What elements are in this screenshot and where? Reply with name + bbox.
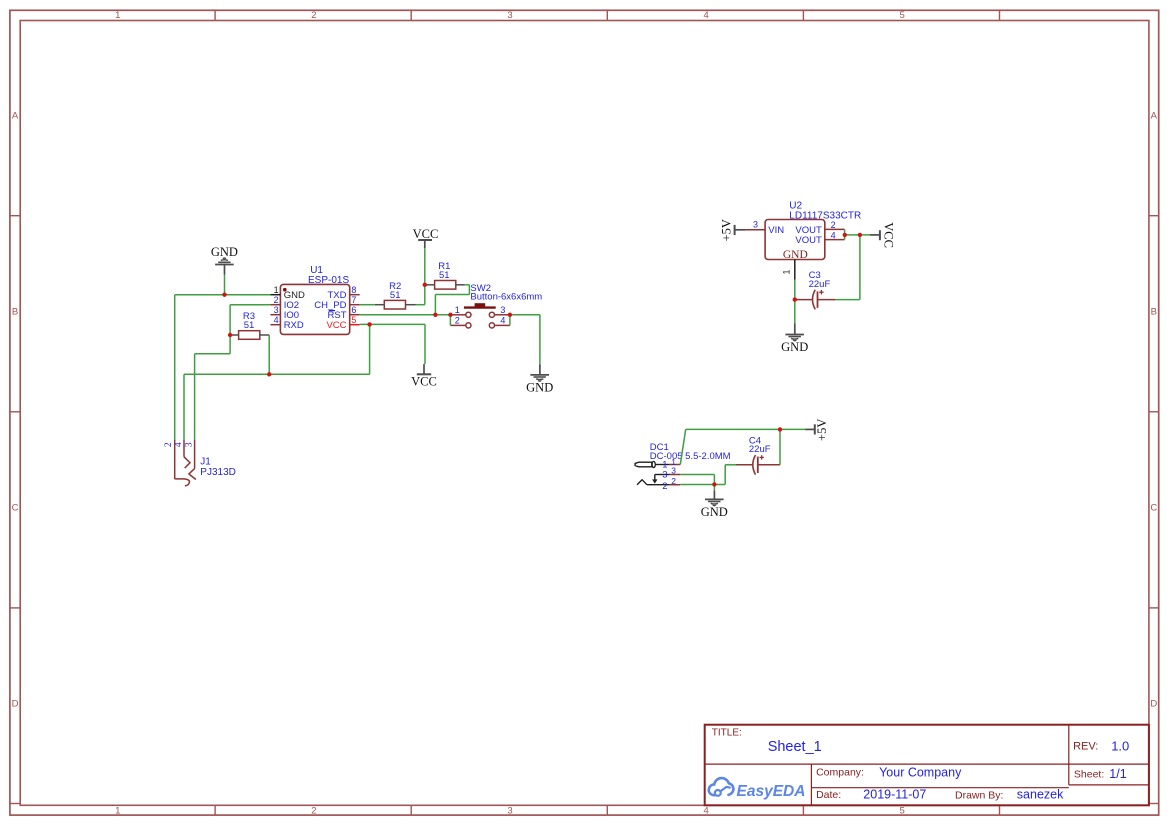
resistor R1 [435, 261, 456, 289]
wire DC1 pin2 [680, 484, 714, 486]
svg-text:7: 7 [351, 295, 356, 305]
wire GND flag stub [224, 265, 226, 275]
junction DC1 ground [712, 482, 716, 486]
svg-text:EasyEDA: EasyEDA [737, 783, 806, 800]
wire IO2 jog horizontal [195, 353, 231, 355]
junction U2 output [843, 233, 847, 237]
wire VCC flag stub U2 [870, 234, 880, 236]
SW2 pin 4 [495, 316, 510, 326]
R3 right lead [260, 334, 269, 336]
DC1 pin 1 [656, 457, 681, 471]
svg-text:51: 51 [439, 270, 450, 281]
R3 left lead [230, 334, 239, 336]
svg-text:22uF: 22uF [809, 279, 831, 290]
resistor R3 [239, 311, 260, 339]
svg-text:4: 4 [831, 230, 836, 240]
wire VCC pin5 down [369, 324, 371, 374]
svg-text:GND: GND [211, 245, 238, 259]
R2 right lead [406, 304, 416, 306]
svg-text:4: 4 [500, 316, 505, 326]
svg-text:6: 6 [351, 305, 356, 315]
svg-text:4: 4 [703, 806, 708, 817]
svg-text:22uF: 22uF [749, 444, 771, 455]
junction SW2 pin3 [508, 313, 512, 317]
svg-text:4: 4 [703, 10, 708, 21]
svg-text:PJ313D: PJ313D [200, 467, 236, 478]
capacitor C4 [749, 435, 771, 474]
U2 pin 1 GND [782, 249, 808, 279]
wire DC1 pin3 [680, 475, 714, 485]
svg-text:VIN: VIN [768, 225, 784, 236]
svg-text:1/1: 1/1 [1109, 767, 1126, 781]
DC1 pin 3 with switch arrow [652, 466, 680, 484]
svg-text:Your Company: Your Company [879, 765, 962, 779]
svg-text:3: 3 [274, 305, 279, 315]
svg-text:GND: GND [781, 340, 808, 354]
svg-text:1.0: 1.0 [1111, 739, 1129, 754]
SW2 pin 3 [495, 305, 510, 315]
svg-text:Drawn By:: Drawn By: [955, 790, 1003, 802]
wire VCC pin5 right [360, 323, 425, 325]
svg-text:8: 8 [351, 285, 356, 295]
net flag VCC top [413, 227, 439, 241]
SW2 pin 1 [450, 305, 465, 315]
svg-text:TITLE:: TITLE: [712, 728, 742, 739]
svg-text:51: 51 [390, 290, 401, 301]
wire +5V flag stub [805, 428, 815, 430]
svg-text:REV:: REV: [1073, 741, 1098, 753]
net flag +5V right of DC1 [815, 419, 829, 441]
svg-text:D: D [1150, 699, 1157, 710]
svg-text:Date:: Date: [816, 789, 841, 801]
svg-text:3: 3 [507, 806, 512, 817]
J1 pin 3 (tip contact) [184, 440, 196, 480]
svg-text:B: B [12, 306, 18, 317]
wire to C4 [714, 465, 736, 485]
svg-text:Company:: Company: [816, 766, 864, 778]
wire VCC pin5 to bottom flag [424, 324, 426, 364]
svg-text:3: 3 [662, 470, 667, 481]
svg-text:VCC: VCC [326, 320, 346, 331]
DC1 barrel plug symbol [635, 461, 655, 467]
net flag GND below U2 [781, 335, 808, 355]
svg-text:2019-11-07: 2019-11-07 [863, 788, 926, 802]
R1 left lead [425, 284, 435, 286]
switch SW2 contacts [466, 312, 495, 328]
svg-text:VCC: VCC [882, 222, 896, 248]
C4 left lead [736, 464, 752, 466]
svg-text:2: 2 [671, 476, 676, 486]
wire +5V to VIN [735, 229, 745, 231]
wire U2 GND down [794, 280, 796, 324]
U2 pin 4 VOUT [795, 230, 844, 246]
U1 pin 3 IO0 [270, 305, 299, 321]
EasyEDA logo [709, 778, 806, 800]
svg-text:2: 2 [274, 295, 279, 305]
svg-text:5: 5 [900, 10, 905, 21]
svg-text:3: 3 [507, 10, 512, 21]
wire C3 branch down [835, 235, 860, 300]
junction SW2 pin1 [448, 313, 452, 317]
wire R2 to VCC line [416, 304, 425, 306]
svg-text:A: A [12, 110, 19, 121]
U1 pin 6 RST [328, 305, 360, 321]
junction R3 left [228, 333, 232, 337]
junction R1 left [423, 283, 427, 287]
svg-text:GND: GND [783, 249, 808, 261]
svg-text:3: 3 [500, 305, 505, 315]
junction C3 left [793, 297, 797, 301]
SW2 pin 2 [450, 316, 465, 326]
svg-text:2: 2 [311, 806, 316, 817]
J1 pin 4 (ring contact) [174, 440, 190, 468]
C3 right lead [818, 299, 836, 301]
C3 left lead [795, 299, 812, 301]
junction GND flag [222, 293, 226, 297]
net flag +5V left of U2 [720, 219, 735, 241]
capacitor C3 [809, 270, 831, 309]
wire IO2 horizontal [230, 304, 270, 306]
wire SW2 right bridge [509, 315, 511, 326]
title block frame [705, 725, 1149, 806]
op-amp U1 ESP-01S body [280, 265, 349, 335]
frame row letters right [1150, 110, 1157, 709]
svg-text:Sheet_1: Sheet_1 [768, 739, 822, 755]
svg-text:B: B [1151, 306, 1157, 317]
wire VCC vertical to J1 pin4 [183, 374, 185, 440]
wire GND flag stub SW2 [539, 364, 541, 375]
wire VCC top stub [424, 240, 426, 248]
svg-text:5: 5 [351, 315, 356, 325]
svg-text:Button-6x6x6mm: Button-6x6x6mm [470, 292, 542, 303]
frame row letters left [12, 110, 19, 709]
svg-text:2: 2 [831, 220, 836, 230]
wire GND net pin1 [175, 294, 271, 296]
wire R3 right to VCC line [268, 335, 270, 374]
net flag GND below DC1 [701, 499, 728, 519]
wire IO2 vertical [229, 305, 231, 354]
U2 pin 2 VOUT [795, 220, 844, 236]
wire U2 output to VCC [845, 234, 870, 236]
U1 pin 5 VCC [326, 315, 359, 331]
svg-text:LD1117S33CTR: LD1117S33CTR [789, 210, 861, 221]
switch SW2 button cap [464, 303, 496, 307]
svg-text:4: 4 [174, 442, 184, 447]
svg-text:5: 5 [900, 806, 905, 817]
svg-text:GND: GND [701, 505, 728, 519]
net flag GND right of SW2 [526, 375, 553, 395]
junction +5V C4 [778, 427, 782, 431]
svg-text:+5V: +5V [815, 419, 829, 441]
wire VCC bottom stub [423, 364, 425, 374]
R2 left lead [375, 304, 384, 306]
svg-text:VCC: VCC [413, 227, 439, 241]
wire R1 right branch [435, 285, 469, 315]
U1 pin 2 IO2 [270, 295, 299, 311]
switch SW2 labels [470, 283, 542, 303]
C4 right lead [758, 464, 780, 466]
svg-text:VOUT: VOUT [795, 235, 822, 246]
R1 right lead [456, 284, 465, 286]
frame column numbers bottom [115, 806, 905, 817]
wire GND flag stub U2 bottom [794, 323, 796, 334]
wire VCC horizontal lower [184, 373, 370, 375]
junction R3 right VCC [267, 372, 271, 376]
svg-text:C: C [12, 503, 19, 514]
U2 pin 3 VIN [745, 220, 784, 237]
svg-text:RXD: RXD [284, 320, 304, 331]
junction R1 RST [433, 313, 437, 317]
U1 pin 7 CH_PD [314, 295, 359, 311]
svg-text:2: 2 [311, 10, 316, 21]
svg-text:D: D [12, 699, 19, 710]
net flag VCC bottom [411, 374, 437, 388]
svg-text:3: 3 [184, 442, 194, 447]
junction VCC branch [858, 233, 862, 237]
frame column numbers top [115, 10, 905, 21]
wire U2 output bridge [844, 229, 846, 239]
svg-text:Sheet:: Sheet: [1074, 768, 1104, 780]
DC1 pin 2 with spring contact [637, 476, 680, 492]
wire SW2 to GND [510, 315, 540, 365]
wire RST line [360, 314, 452, 316]
wire C4 to +5V [779, 429, 781, 464]
svg-text:1: 1 [274, 285, 279, 295]
wire DC1 pin1 diagonal +5V [680, 429, 805, 464]
svg-text:1: 1 [782, 269, 792, 274]
svg-text:3: 3 [671, 466, 676, 476]
svg-text:+5V: +5V [720, 219, 734, 241]
svg-text:sanezek: sanezek [1017, 788, 1064, 802]
svg-text:2: 2 [164, 442, 174, 447]
U1 pin 8 TXD [328, 285, 360, 301]
svg-text:ESP-01S: ESP-01S [308, 275, 349, 286]
regulator U2 LD1117S33CTR body [765, 200, 861, 259]
svg-text:51: 51 [244, 320, 255, 331]
wire IO2 vertical to J1 pin3 [194, 354, 196, 440]
svg-text:C: C [1150, 503, 1157, 514]
U1 pin 4 RXD [270, 315, 303, 331]
wire GND net vertical to J1 pin2 [174, 295, 176, 440]
svg-text:2: 2 [455, 316, 460, 326]
net flag GND top-left (inverted) [211, 245, 238, 264]
wire SW2 left bridge [449, 315, 451, 326]
svg-text:4: 4 [274, 315, 279, 325]
svg-text:2: 2 [662, 481, 667, 492]
resistor R2 [384, 281, 405, 309]
junction pin5 VCC [367, 322, 371, 326]
svg-text:A: A [1151, 110, 1158, 121]
U1 pin 1 GND [270, 285, 305, 301]
svg-text:VCC: VCC [411, 374, 437, 388]
net flag VCC right of U2 [880, 222, 896, 248]
wire CH_PD to R2 [360, 304, 375, 306]
svg-text:1: 1 [115, 10, 120, 21]
svg-text:1: 1 [455, 305, 460, 315]
connector J1 labels [200, 457, 236, 478]
wire GND flag stub DC1 [713, 484, 715, 499]
J1 pin 2 (sleeve) [164, 440, 189, 486]
svg-text:GND: GND [526, 381, 553, 395]
connector DC1 labels [650, 442, 731, 462]
svg-text:1: 1 [115, 806, 120, 817]
svg-text:3: 3 [753, 220, 758, 230]
